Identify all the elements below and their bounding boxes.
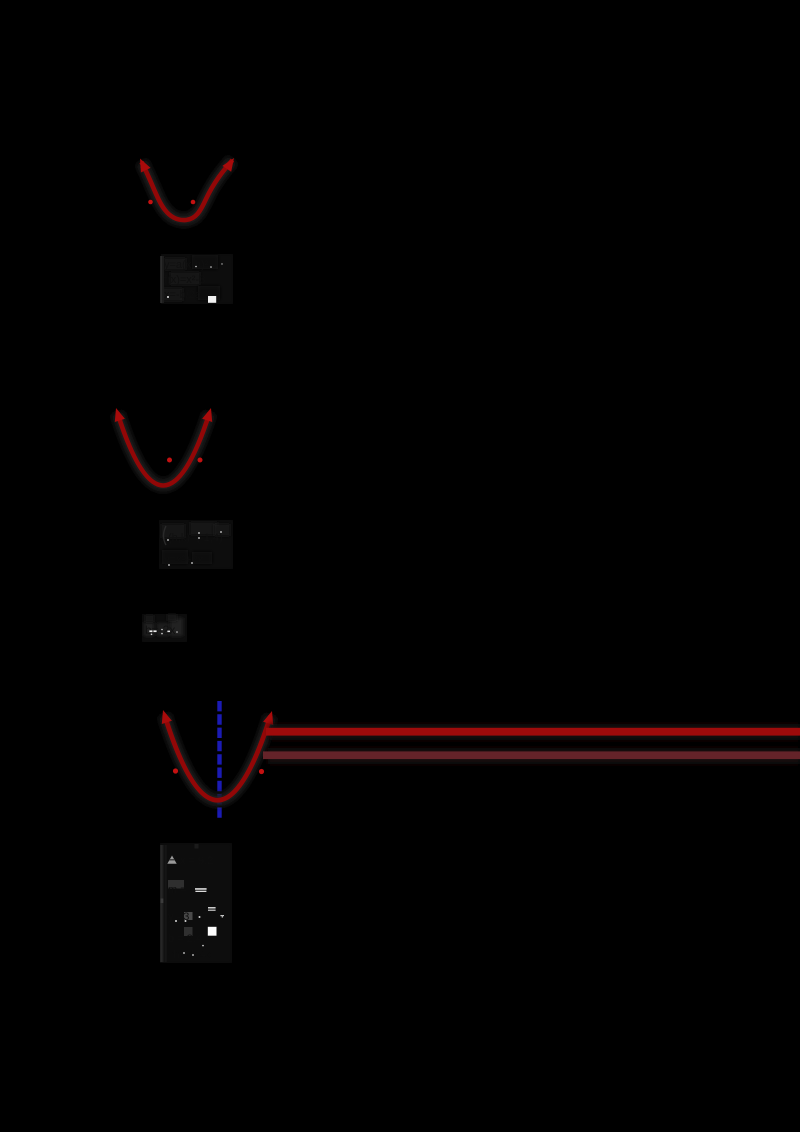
horizontal red line 1 (bright) — [266, 728, 800, 736]
white speck block 2 e — [168, 564, 170, 566]
red point dot left on parabola 3 — [173, 768, 178, 773]
svg-text:check 4x: check 4x — [168, 949, 212, 961]
white speck block 2 d — [220, 531, 222, 533]
svg-text:y=a(x-h)²: y=a(x-h)² — [164, 259, 209, 271]
white speck b-equation c — [176, 631, 178, 633]
faint vertical bracket line block 3 — [160, 845, 167, 962]
bright equals bar 2 upper — [208, 907, 216, 908]
faint artifact patches block 2 — [161, 524, 185, 538]
arrowhead left of parabola 3 — [162, 710, 172, 724]
white speck block 3 b — [185, 920, 187, 922]
svg-text:x=-b/2a: x=-b/2a — [164, 289, 202, 301]
bright dash b-equation c — [167, 631, 170, 633]
halo around blue dashed axis — [214, 699, 226, 824]
white speck b-equation b — [161, 633, 163, 635]
blue dashed axis of symmetry — [217, 701, 221, 821]
faint b-equation background — [142, 614, 187, 642]
halo around horizontal red line 1 — [270, 724, 800, 740]
compression-artifact halo around parabola 3 — [165, 715, 271, 800]
bright dash b-equation a — [149, 630, 152, 632]
gray speck below axis — [195, 844, 199, 849]
white speck block 1 b — [195, 266, 197, 268]
faint work block 3 background — [160, 843, 232, 963]
white answer box in block 1 — [208, 296, 216, 303]
white speck block 1 a — [167, 296, 169, 298]
compression-artifact halo around parabola 1 — [142, 160, 233, 220]
white answer box block 3 — [208, 927, 217, 936]
svg-text:y=x²+2x: y=x²+2x — [164, 554, 204, 566]
bright dash b-equation b — [153, 630, 156, 632]
white speck block 2 a — [167, 539, 169, 541]
compression-artifact halo around parabola 2 — [118, 413, 210, 486]
white speck block 1 c — [210, 266, 212, 268]
horizontal red line 2 (dark maroon) — [263, 751, 800, 759]
gray block row 2 — [168, 880, 184, 889]
white speck b-equation a — [161, 629, 163, 631]
arrowhead right of parabola 3 — [263, 711, 273, 725]
gray block row 4 — [184, 927, 193, 936]
arrowhead left of parabola 2 — [115, 408, 125, 422]
faint b-equation darker blocks — [144, 622, 154, 636]
white speck block 3 d — [183, 952, 185, 954]
delta triangle inner stripe — [169, 859, 175, 860]
bright equals bar 2 lower — [208, 910, 216, 911]
bright equals bar 1 upper — [195, 888, 207, 890]
parabola curve 2 (middle) — [118, 413, 210, 486]
gray delta triangle — [167, 856, 176, 864]
svg-text:(h,k)=(-1,4): (h,k)=(-1,4) — [168, 532, 223, 544]
arrowhead right of parabola 2 — [202, 408, 212, 422]
white speck block 3 f — [202, 945, 204, 947]
bright equals bar 1 lower — [195, 891, 206, 892]
white speck block 2 b — [198, 532, 200, 534]
svg-text:f(x)=x²-3: f(x)=x²-3 — [164, 274, 205, 286]
arrowhead right of parabola 1 — [222, 158, 234, 172]
red point dot left on parabola 2 — [167, 458, 172, 463]
parabola curve 1 (top) — [142, 160, 233, 220]
faint artifact patches block 1 — [164, 258, 186, 270]
svg-text:y - 3 = 7: y - 3 = 7 — [168, 911, 208, 923]
faint equation text block 1 background — [161, 254, 233, 304]
faint vertical bracket line block 1 — [160, 256, 164, 303]
white speck block 3 c — [175, 920, 177, 922]
red point dot right on parabola 1 — [191, 200, 196, 205]
svg-text:b=-2x: b=-2x — [145, 623, 175, 637]
red point dot left on parabola 1 — [148, 200, 153, 205]
faint equation text block 2 background — [159, 520, 233, 569]
svg-text:b = 2.4: b = 2.4 — [168, 933, 202, 945]
red point dot right on parabola 2 — [198, 458, 203, 463]
red point dot right on parabola 3 — [259, 769, 264, 774]
white speck block 2 c — [198, 537, 200, 539]
svg-text:x = 9.2: x = 9.2 — [180, 855, 213, 867]
secondary faint vertical line block 3 — [164, 845, 166, 962]
white speck block 1 d — [221, 263, 222, 264]
gray block row 3 — [184, 912, 193, 920]
arrowhead left of parabola 1 — [140, 159, 151, 173]
bright T mark — [220, 915, 224, 916]
white speck block 2 f — [191, 562, 193, 564]
halo around horizontal red line 2 — [268, 748, 800, 764]
white speck block 3 a — [199, 916, 201, 918]
faint parenthesis block 2 — [164, 526, 167, 545]
svg-text:m = 14: m = 14 — [168, 884, 202, 896]
parabola curve 3 (bottom) — [165, 715, 271, 800]
white speck block 3 e — [192, 954, 194, 956]
white speck b-equation d — [151, 634, 153, 636]
bright segment on bracket block 3 — [161, 899, 164, 904]
